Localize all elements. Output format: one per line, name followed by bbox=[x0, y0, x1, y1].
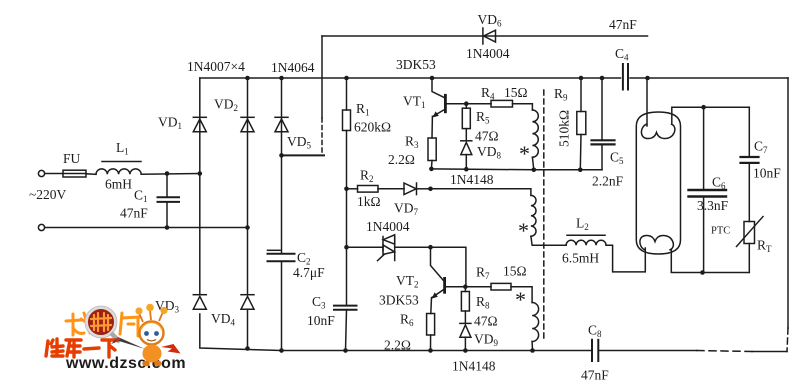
svg-text:1N4148: 1N4148 bbox=[450, 172, 494, 187]
wire bridge column 2 to rail bbox=[247, 309, 249, 348]
diode VD4 bbox=[241, 295, 254, 310]
svg-text:1N4007×4: 1N4007×4 bbox=[187, 59, 245, 74]
svg-text:6.5mH: 6.5mH bbox=[562, 251, 599, 266]
diode VD8 bbox=[461, 141, 472, 169]
inductor L1 bbox=[96, 162, 141, 175]
wire VT2 base lead bbox=[446, 286, 466, 288]
wire node A horizontal link VD5 to dashed column bbox=[282, 154, 325, 156]
thermistor RT bbox=[737, 217, 764, 273]
svg-text:1N4064: 1N4064 bbox=[271, 60, 315, 75]
capacitor C2 electrolytic bbox=[268, 250, 295, 261]
wire C3 to bottom rail bbox=[346, 310, 347, 351]
svg-text:47nF: 47nF bbox=[581, 368, 609, 383]
svg-text:47Ω: 47Ω bbox=[475, 129, 499, 144]
wire R1 column top bbox=[346, 78, 348, 110]
wire top bypass VD6 rail y=36 bbox=[322, 35, 648, 37]
resistor R9 bbox=[577, 78, 586, 170]
svg-text:2.2Ω: 2.2Ω bbox=[388, 152, 415, 167]
diode VD3 bbox=[193, 295, 206, 310]
inductor L2 bbox=[566, 235, 606, 245]
wire bridge column 2 upper bbox=[247, 78, 249, 228]
diode VD9 bbox=[460, 323, 471, 350]
resistor R3 bbox=[428, 138, 436, 161]
capacitor C1 bbox=[158, 174, 180, 228]
wire R4 to winding T1a bbox=[513, 104, 533, 110]
wire diac row left bbox=[347, 246, 384, 248]
transformer core dashed line bbox=[543, 90, 545, 341]
wire right side vertical bbox=[787, 78, 789, 328]
svg-text:2.2Ω: 2.2Ω bbox=[384, 338, 411, 353]
wire R2 node to diac node bbox=[346, 189, 348, 247]
capacitor C8 bbox=[592, 340, 598, 361]
svg-text:PTC: PTC bbox=[711, 226, 730, 237]
svg-text:*: * bbox=[518, 218, 529, 243]
resistor R4 bbox=[491, 100, 513, 107]
wire right side vertical dashed lower part bbox=[787, 328, 788, 352]
resistor R5 bbox=[462, 104, 470, 141]
svg-text:~220V: ~220V bbox=[29, 187, 67, 202]
wire zener column to C2 bbox=[281, 155, 283, 253]
wire C2 to bottom rail bbox=[281, 261, 283, 350]
wire winding T1b to L2 bbox=[531, 236, 566, 245]
wire L1 to bridge bbox=[141, 173, 200, 176]
transistor VT1 bbox=[432, 78, 445, 138]
svg-text:1kΩ: 1kΩ bbox=[357, 194, 381, 209]
svg-text:4.7μF: 4.7μF bbox=[293, 265, 325, 280]
wire lamp top left pin bbox=[646, 78, 648, 126]
svg-text:620kΩ: 620kΩ bbox=[354, 120, 391, 135]
wire winding T1c to bottom rail bbox=[531, 342, 533, 351]
svg-text:510kΩ: 510kΩ bbox=[557, 110, 572, 147]
svg-text:FU: FU bbox=[63, 151, 81, 166]
fuse FU bbox=[63, 170, 86, 177]
wire VT1 base to R4 bbox=[466, 103, 491, 105]
wire R2 row bbox=[347, 188, 358, 190]
svg-text:1N4004: 1N4004 bbox=[466, 46, 510, 61]
wire FU to L1 bbox=[86, 173, 96, 176]
capacitor C4 bbox=[623, 64, 628, 90]
wire AC line 1 bbox=[45, 173, 63, 175]
wire bottom DC- rail left part bbox=[200, 314, 346, 351]
svg-text:3DK53: 3DK53 bbox=[379, 293, 419, 308]
resistor R8 bbox=[461, 287, 469, 324]
capacitor C5 bbox=[592, 78, 615, 170]
lamp tube bbox=[636, 112, 680, 254]
winding T1c base drive VT2 bbox=[532, 303, 539, 342]
diode VD6 bbox=[483, 28, 496, 44]
capacitor C3 bbox=[334, 306, 357, 310]
wire L2 to lamp bottom left pin bbox=[606, 245, 645, 272]
svg-text:3DK53: 3DK53 bbox=[396, 57, 436, 72]
svg-text:*: * bbox=[515, 287, 526, 312]
wire diac to VT2 base drop bbox=[431, 247, 466, 287]
wire AC line 2 bbox=[45, 227, 248, 229]
winding T1a base drive VT1 bbox=[532, 110, 538, 157]
wire diac node to C3 bbox=[346, 247, 348, 305]
wire VT2 base to R7 bbox=[465, 286, 491, 288]
wire R7 to winding T1c bbox=[511, 287, 532, 303]
wire R1 to R2 node bbox=[346, 131, 348, 189]
lamp top filament bbox=[641, 124, 674, 139]
wire bottom DC- rail middle bbox=[346, 350, 593, 352]
wire bridge column 1 upper bbox=[199, 78, 201, 174]
wire VT1 base lead bbox=[447, 103, 467, 105]
resistor R7 bbox=[491, 283, 511, 290]
diode VD1 bbox=[193, 117, 206, 132]
resistor R2 bbox=[358, 186, 379, 193]
svg-text:47nF: 47nF bbox=[609, 17, 637, 32]
wire diac row right bbox=[395, 246, 431, 248]
capacitor C7 bbox=[741, 107, 759, 221]
terminal input N bbox=[38, 224, 44, 230]
wire bridge column 2 lower bbox=[247, 228, 249, 295]
resistor R1 bbox=[343, 110, 351, 131]
wire DC+ top rail right of C4 bbox=[630, 77, 788, 79]
svg-text:www.dzsc.com: www.dzsc.com bbox=[65, 355, 186, 372]
wire mid rail y=169 bbox=[431, 168, 602, 171]
svg-text:10nF: 10nF bbox=[307, 313, 335, 328]
wire R6 to bottom rail bbox=[430, 335, 432, 351]
terminal input L bbox=[38, 170, 44, 176]
lamp bottom filament bbox=[640, 235, 674, 250]
svg-text:47nF: 47nF bbox=[120, 206, 148, 221]
svg-text:3.3nF: 3.3nF bbox=[697, 198, 729, 213]
wire bottom DC- rail right of C8 bbox=[598, 350, 697, 352]
svg-text:47Ω: 47Ω bbox=[474, 314, 498, 329]
wire winding T1a to mid rail bbox=[532, 157, 533, 170]
wire bottom DC- rail right corner bbox=[752, 351, 787, 353]
wire R3 to mid rail bbox=[430, 161, 433, 169]
wire lamp top right pin bbox=[672, 107, 750, 124]
wire lamp bottom right pin bbox=[671, 250, 749, 273]
wire mid rail extension to winding T1b bbox=[431, 189, 531, 196]
svg-text:2.2nF: 2.2nF bbox=[592, 174, 624, 189]
transistor VT2 bbox=[431, 247, 445, 313]
wire bottom DC- rail faded dashed part bbox=[697, 351, 752, 352]
capacitor C6 bbox=[689, 107, 727, 272]
svg-text:*: * bbox=[519, 141, 530, 166]
resistor R6 bbox=[427, 314, 435, 336]
diode VD2 bbox=[241, 117, 254, 132]
wire dashed segment above node A bbox=[321, 118, 323, 155]
svg-text:1N4004: 1N4004 bbox=[366, 219, 410, 234]
svg-text:6mH: 6mH bbox=[105, 177, 132, 192]
wire R2 to VD7 bbox=[378, 188, 404, 190]
svg-text:1N4148: 1N4148 bbox=[452, 359, 496, 374]
diode VD5 bbox=[275, 117, 288, 132]
svg-text:15Ω: 15Ω bbox=[503, 264, 527, 279]
diac trigger diode bbox=[378, 235, 395, 261]
watermark mascot bbox=[111, 304, 181, 367]
watermark logo dzsc bbox=[46, 304, 186, 372]
svg-text:15Ω: 15Ω bbox=[504, 85, 528, 100]
wire bridge column 1 lower bbox=[199, 174, 201, 295]
diode VD7 bbox=[404, 183, 417, 195]
winding T1b resonant primary bbox=[531, 195, 536, 236]
wire zener column upper bbox=[281, 78, 283, 155]
wire vertical from VD6 rail down to VD5 node bbox=[321, 36, 323, 118]
wire DC+ top rail y=78 bbox=[200, 77, 621, 79]
wire VD7 to column node bbox=[417, 188, 431, 190]
svg-text:10nF: 10nF bbox=[753, 166, 781, 181]
